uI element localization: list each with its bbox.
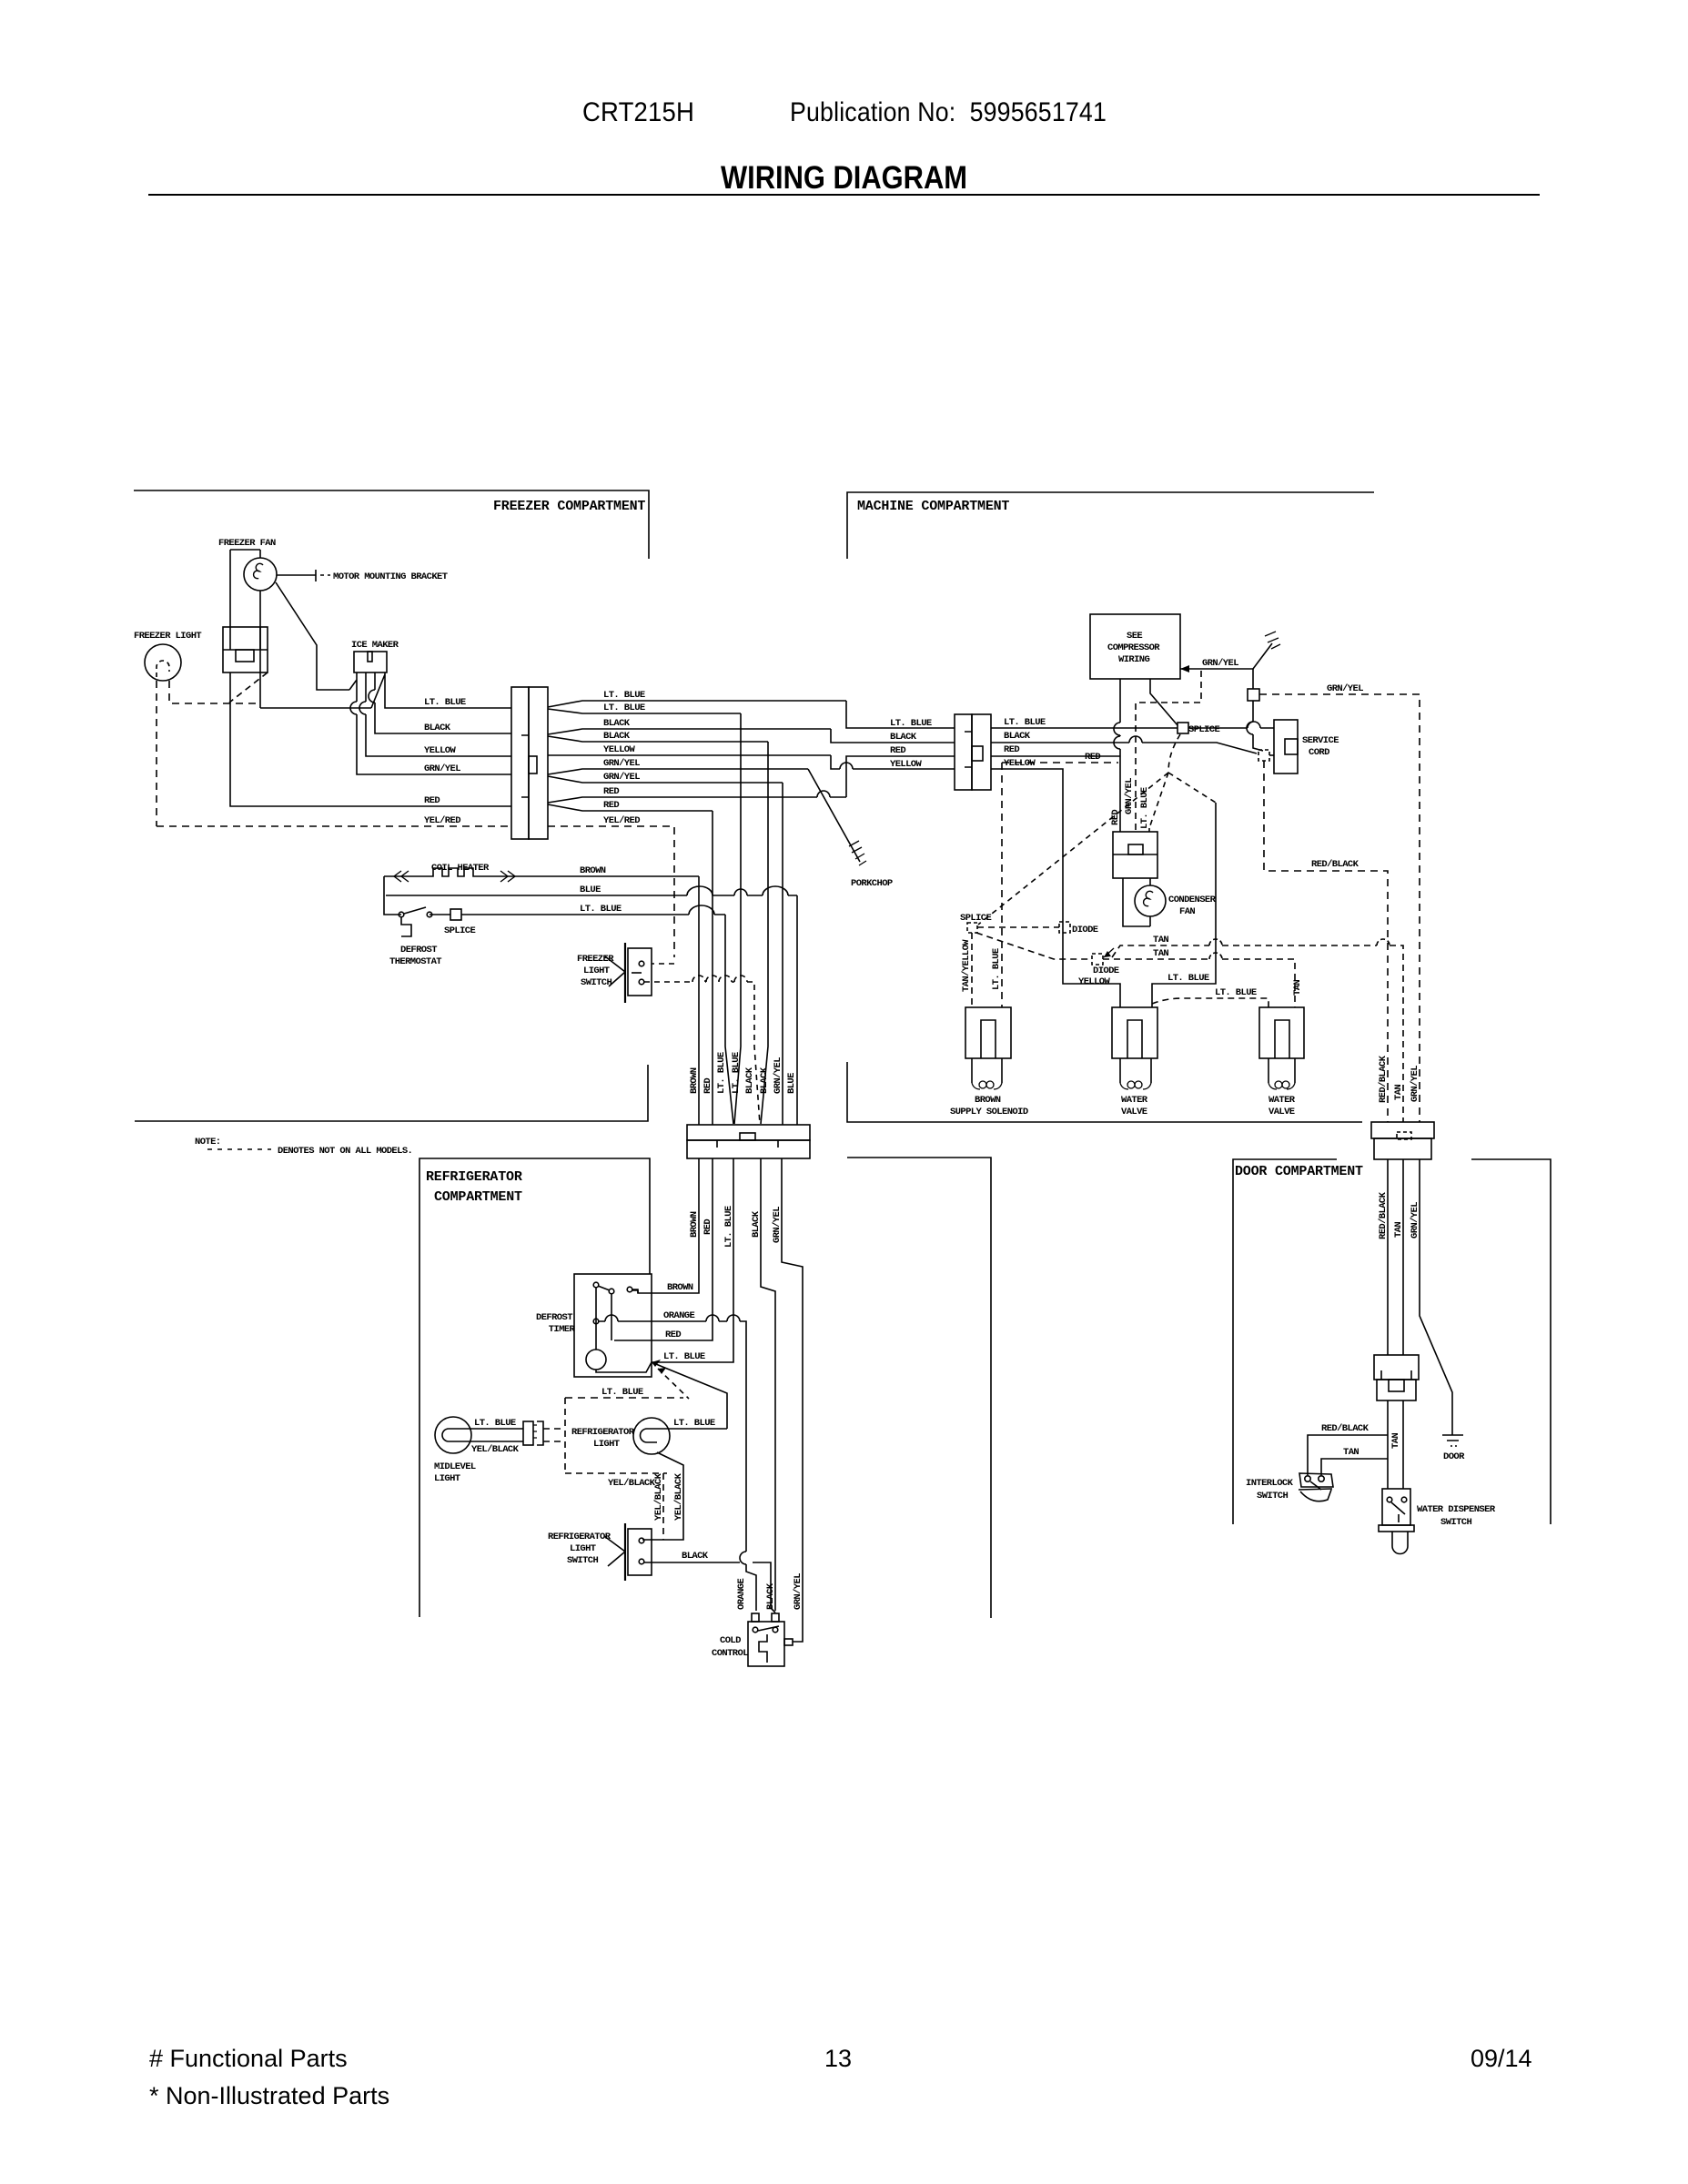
title rule bbox=[148, 194, 1540, 196]
lt blue dashed to valve2 bbox=[1152, 998, 1269, 1007]
wire black2 vertical to connector bbox=[761, 742, 768, 1124]
cold control contacts bbox=[753, 1627, 758, 1633]
wire lt blue1 to machine bbox=[846, 701, 955, 728]
svg-text:WATER DISPENSER: WATER DISPENSER bbox=[1417, 1504, 1496, 1515]
cold control right stub bbox=[784, 1639, 793, 1645]
dashed link midlevel to circuit bbox=[543, 1398, 667, 1473]
lt blue solid vertical to valve bbox=[1152, 803, 1216, 1007]
svg-text:LT. BLUE: LT. BLUE bbox=[601, 1387, 643, 1398]
tan wire to interlock bbox=[1321, 1459, 1388, 1475]
svg-text:RED: RED bbox=[665, 1330, 681, 1340]
svg-text:COLD: COLD bbox=[720, 1635, 741, 1646]
orange wire from timer bbox=[599, 1321, 756, 1611]
svg-text:TAN: TAN bbox=[1153, 948, 1168, 959]
svg-text:BLACK: BLACK bbox=[765, 1582, 776, 1610]
svg-text:GRN/YEL: GRN/YEL bbox=[773, 1057, 783, 1094]
defrost thermostat step bbox=[401, 917, 411, 936]
wire fanout grn/yel pair bbox=[548, 769, 808, 783]
wire lt blue vertical to connector bbox=[725, 915, 733, 1124]
brown supply solenoid legs bbox=[972, 1058, 1002, 1083]
svg-text:LT. BLUE: LT. BLUE bbox=[424, 697, 466, 708]
freezer light switch contacts bbox=[639, 961, 644, 966]
svg-text:DEFROST: DEFROST bbox=[400, 945, 437, 955]
svg-text:LT. BLUE: LT. BLUE bbox=[1167, 973, 1209, 984]
wire freezer fan right lead bbox=[259, 550, 261, 708]
midlevel light circle bbox=[435, 1417, 471, 1453]
svg-text:ICE MAKER: ICE MAKER bbox=[351, 640, 399, 651]
machine connector block bbox=[955, 714, 972, 790]
svg-text:FREEZER: FREEZER bbox=[577, 954, 614, 965]
wire square to service cord bbox=[1269, 754, 1274, 756]
door wires red/black tan grn/yel bbox=[1388, 1159, 1452, 1435]
svg-text:SWITCH: SWITCH bbox=[1440, 1517, 1472, 1528]
freezer fan bracket box bbox=[223, 627, 268, 672]
water valve 2 legs bbox=[1269, 1058, 1295, 1083]
wire fan to ice maker diagonal bbox=[276, 582, 349, 690]
svg-text:BLACK: BLACK bbox=[744, 1067, 755, 1094]
svg-text:BROWN: BROWN bbox=[667, 1282, 693, 1293]
svg-text:SPLICE: SPLICE bbox=[960, 913, 992, 924]
svg-text:# Functional Parts: # Functional Parts bbox=[149, 2045, 348, 2072]
svg-text:BLACK: BLACK bbox=[424, 723, 451, 733]
wire black from switch bbox=[644, 1562, 775, 1613]
red dashed branch bbox=[1002, 762, 1118, 763]
svg-text:YEL/BLACK: YEL/BLACK bbox=[608, 1478, 656, 1489]
door connector block bbox=[1371, 1122, 1434, 1138]
refrigerator light switch flag bbox=[604, 1536, 625, 1566]
refrigerator light switch box bbox=[628, 1529, 652, 1575]
refrigerator light circle bbox=[633, 1418, 670, 1454]
svg-text:SWITCH: SWITCH bbox=[581, 977, 612, 988]
svg-text:GRN/YEL: GRN/YEL bbox=[1327, 683, 1363, 694]
svg-text:DIODE: DIODE bbox=[1093, 966, 1119, 976]
coil heater element bbox=[384, 868, 699, 876]
tan lower dashed to valve2 bbox=[1103, 959, 1295, 1007]
svg-text:GRN/YEL: GRN/YEL bbox=[772, 1207, 783, 1243]
freezer light switch flag bbox=[605, 956, 625, 986]
wire lt blue freezer left bbox=[260, 707, 371, 709]
svg-text:BROWN: BROWN bbox=[580, 865, 606, 876]
water valve 2 coil bbox=[1269, 1083, 1295, 1089]
svg-text:WIRING DIAGRAM: WIRING DIAGRAM bbox=[721, 160, 967, 196]
wire midlevel yel/black bbox=[470, 1441, 523, 1442]
svg-text:YEL/BLACK: YEL/BLACK bbox=[471, 1444, 520, 1455]
svg-text:BLACK: BLACK bbox=[890, 732, 917, 743]
svg-text:13: 13 bbox=[824, 2045, 852, 2072]
wire black machine right bbox=[991, 743, 1257, 753]
svg-text:WIRING: WIRING bbox=[1118, 654, 1150, 665]
wire yel/red dashed freezer bbox=[157, 825, 511, 827]
svg-text:VALVE: VALVE bbox=[1121, 1107, 1147, 1117]
svg-text:LT. BLUE: LT. BLUE bbox=[603, 690, 645, 701]
ice maker pin 4 bbox=[371, 672, 511, 708]
diode1 square bbox=[1059, 922, 1070, 933]
wire compressor right vertical to splice bbox=[1150, 679, 1178, 725]
svg-text:RED: RED bbox=[603, 786, 619, 797]
svg-text:RED/BLACK: RED/BLACK bbox=[1321, 1423, 1370, 1434]
wire grn/yel2 vertical to connector bbox=[782, 783, 783, 1125]
tan dashed diagonal from splice bbox=[976, 933, 1092, 959]
brown supply solenoid coil bbox=[972, 1083, 980, 1089]
wire relay lt blue stub bbox=[1148, 828, 1150, 832]
door compartment border right bbox=[1471, 1159, 1551, 1524]
svg-text:BLACK: BLACK bbox=[1004, 731, 1031, 742]
svg-text:RED: RED bbox=[424, 795, 440, 806]
wire midlevel lt blue bbox=[471, 1428, 523, 1430]
svg-text:LT. BLUE: LT. BLUE bbox=[603, 703, 645, 713]
svg-text:COMPRESSOR: COMPRESSOR bbox=[1107, 642, 1160, 653]
svg-text:FREEZER FAN: FREEZER FAN bbox=[218, 538, 276, 549]
svg-text:BROWN: BROWN bbox=[975, 1095, 1001, 1106]
svg-text:VALVE: VALVE bbox=[1269, 1107, 1295, 1117]
svg-text:BLACK: BLACK bbox=[759, 1067, 770, 1094]
svg-text:MIDLEVEL: MIDLEVEL bbox=[434, 1461, 476, 1472]
wire yellow to machine bbox=[831, 755, 955, 769]
svg-text:TAN: TAN bbox=[1393, 1222, 1404, 1238]
ice maker pin 2 bbox=[366, 672, 511, 756]
freezer light filament dashed bbox=[157, 661, 169, 677]
svg-text:YELLOW: YELLOW bbox=[1078, 976, 1111, 987]
svg-text:GRN/YEL: GRN/YEL bbox=[1410, 1202, 1420, 1239]
freezer light switch plate bbox=[624, 943, 626, 1003]
defrost timer red contact vertical bbox=[611, 1294, 612, 1340]
svg-text:BLUE: BLUE bbox=[580, 885, 601, 895]
freezer compartment border bottom bbox=[135, 1065, 648, 1121]
below-connector wire lt blue bbox=[652, 1158, 733, 1362]
defrost timer motor circle bbox=[586, 1350, 606, 1370]
freezer light bulb circle bbox=[145, 644, 181, 681]
svg-text:YEL/BLACK: YEL/BLACK bbox=[673, 1472, 684, 1521]
svg-text:MOTOR MOUNTING BRACKET: MOTOR MOUNTING BRACKET bbox=[333, 571, 448, 582]
water dispenser switch box bbox=[1382, 1489, 1410, 1525]
svg-text:LT. BLUE: LT. BLUE bbox=[673, 1418, 715, 1429]
svg-text:YEL/BLACK: YEL/BLACK bbox=[653, 1472, 664, 1521]
svg-text:LIGHT: LIGHT bbox=[570, 1543, 596, 1554]
svg-text:LT. BLUE: LT. BLUE bbox=[890, 718, 932, 729]
defrost timer box bbox=[574, 1274, 652, 1377]
svg-text:LT. BLUE: LT. BLUE bbox=[723, 1206, 734, 1248]
svg-text:SEE: SEE bbox=[1127, 631, 1142, 642]
svg-text:RED/BLACK: RED/BLACK bbox=[1378, 1055, 1389, 1103]
wire lt blue heater row bbox=[430, 914, 725, 915]
in-door connector block bbox=[1374, 1355, 1419, 1380]
svg-text:SPLICE: SPLICE bbox=[1188, 724, 1220, 735]
red/black wire to interlock bbox=[1308, 1400, 1388, 1489]
diode2 square bbox=[1092, 954, 1103, 965]
svg-text:SERVICE: SERVICE bbox=[1302, 735, 1339, 746]
wire heater left vertical bbox=[384, 876, 401, 915]
wire fanout black pair bbox=[548, 729, 831, 742]
svg-text:COMPARTMENT: COMPARTMENT bbox=[434, 1189, 522, 1205]
defrost thermostat contacts bbox=[399, 912, 404, 917]
porkchop ground diagonal bbox=[808, 769, 860, 862]
svg-text:DOOR: DOOR bbox=[1443, 1451, 1465, 1462]
svg-text:REFRIGERATOR: REFRIGERATOR bbox=[548, 1532, 612, 1542]
wire refrigerator light lt blue bbox=[670, 1428, 727, 1430]
svg-text:PORKCHOP: PORKCHOP bbox=[851, 878, 893, 889]
svg-text:GRN/YEL: GRN/YEL bbox=[603, 758, 640, 769]
grn/yel dashed to door bbox=[1259, 694, 1420, 1122]
svg-text:THERMOSTAT: THERMOSTAT bbox=[389, 956, 441, 967]
wire dashed diagonal bracket to fan node bbox=[229, 672, 268, 703]
svg-text:SUPPLY SOLENOID: SUPPLY SOLENOID bbox=[950, 1107, 1028, 1117]
svg-text:Publication No: 5995651741: Publication No: 5995651741 bbox=[790, 97, 1107, 127]
interlock switch symbol bbox=[1305, 1476, 1310, 1481]
svg-text:BLACK: BLACK bbox=[751, 1210, 762, 1238]
svg-text:09/14: 09/14 bbox=[1471, 2045, 1532, 2072]
water dispenser switch flange bbox=[1379, 1525, 1414, 1532]
freezer compartment border top bbox=[134, 490, 649, 559]
refrigerator compartment border right bbox=[847, 1158, 991, 1618]
svg-text:BLACK: BLACK bbox=[603, 718, 631, 729]
refrigerator compartment border top-left bbox=[419, 1158, 650, 1617]
ice maker box bbox=[354, 652, 387, 672]
red/black dashed from square bbox=[1264, 761, 1388, 1122]
svg-text:RED: RED bbox=[702, 1078, 713, 1094]
wire blue heater bbox=[386, 895, 797, 896]
tan upper dashed to door bbox=[1112, 945, 1403, 1122]
svg-text:LT. BLUE: LT. BLUE bbox=[1004, 717, 1046, 728]
svg-text:GRN/YEL: GRN/YEL bbox=[1410, 1066, 1420, 1102]
grn/yel dashed relay path bbox=[1136, 671, 1201, 832]
below-connector wire black bbox=[761, 1158, 775, 1611]
svg-text:LT. BLUE: LT. BLUE bbox=[1215, 987, 1257, 998]
svg-text:YELLOW: YELLOW bbox=[1004, 758, 1036, 769]
wire brown vertical to connector bbox=[698, 876, 700, 1125]
svg-text:LIGHT: LIGHT bbox=[434, 1473, 460, 1484]
svg-text:BLACK: BLACK bbox=[603, 731, 631, 742]
refrigerator connector block bbox=[687, 1125, 810, 1140]
svg-text:GRN/YEL: GRN/YEL bbox=[1124, 778, 1135, 814]
svg-text:INTERLOCK: INTERLOCK bbox=[1246, 1478, 1294, 1489]
refrigerator light switch plate bbox=[624, 1523, 626, 1581]
ice maker splice square dashed bbox=[967, 923, 977, 933]
svg-text:RED: RED bbox=[1085, 752, 1100, 763]
svg-text:BLACK: BLACK bbox=[682, 1551, 709, 1562]
grn/yel splice square bbox=[1248, 689, 1259, 701]
svg-text:SWITCH: SWITCH bbox=[1257, 1491, 1289, 1501]
svg-text:* Non-Illustrated Parts: * Non-Illustrated Parts bbox=[149, 2082, 389, 2109]
wire switch lower contact dashed bbox=[644, 982, 760, 1124]
defrost timer motor bottom wire bbox=[596, 1362, 652, 1372]
diode1 dashed to splice bbox=[977, 926, 1059, 928]
below-connector wire red bbox=[614, 1158, 713, 1340]
wire yellow machine right bbox=[991, 769, 1120, 1007]
wire grn/yel splice drop bbox=[1253, 669, 1263, 751]
dashed yel/black vertical bbox=[662, 1473, 664, 1540]
svg-text:RED: RED bbox=[603, 800, 619, 811]
grn/yel ground hatch bbox=[1265, 632, 1280, 649]
cold control bellows bbox=[759, 1634, 767, 1663]
lt blue dashed node and diagonals bbox=[1149, 734, 1216, 828]
wire compressor red vertical bbox=[1119, 679, 1121, 832]
svg-text:TAN: TAN bbox=[1343, 1447, 1359, 1458]
grn/yel wire top bbox=[1180, 643, 1272, 669]
svg-text:TAN: TAN bbox=[1153, 935, 1168, 945]
svg-text:NOTE:: NOTE: bbox=[195, 1137, 221, 1148]
water valve 1 coil bbox=[1120, 1083, 1151, 1089]
svg-text:REFRIGERATOR: REFRIGERATOR bbox=[571, 1427, 635, 1438]
svg-text:TIMER: TIMER bbox=[543, 1324, 576, 1335]
svg-text:RED: RED bbox=[890, 745, 905, 756]
defrost timer brown contact wire bbox=[632, 1289, 638, 1293]
see compressor wiring box bbox=[1090, 614, 1180, 679]
lt blue dashed horizontal bbox=[565, 1397, 683, 1399]
service cord dashed square bbox=[1258, 750, 1269, 761]
freezer light switch box bbox=[628, 948, 652, 996]
cold control terminals bbox=[752, 1613, 759, 1622]
water valve 1 body bbox=[1112, 1007, 1157, 1058]
svg-text:CONTROL: CONTROL bbox=[712, 1648, 748, 1659]
brown supply solenoid body bbox=[965, 1007, 1011, 1058]
tan wire to dispenser bbox=[1402, 1400, 1404, 1489]
water valve 1 legs bbox=[1120, 1058, 1151, 1083]
wire lt blue2 vertical to connector bbox=[734, 713, 741, 1124]
wire yellow through bbox=[548, 754, 831, 756]
splice square heater bbox=[450, 909, 461, 920]
wire freezer light dashed to fan node bbox=[169, 681, 258, 703]
wire fanout red pair bbox=[548, 797, 846, 811]
machine compartment border bottom bbox=[847, 1062, 1362, 1122]
wire blue vertical to connector bbox=[796, 895, 798, 1125]
svg-text:TAN: TAN bbox=[1393, 1085, 1404, 1100]
svg-text:GRN/YEL: GRN/YEL bbox=[793, 1573, 804, 1610]
midlevel connector bbox=[523, 1421, 533, 1445]
svg-text:BROWN: BROWN bbox=[689, 1211, 700, 1238]
motor mounting bracket symbol bbox=[277, 570, 316, 581]
diode2 arrow bbox=[1104, 948, 1114, 957]
condenser fan legs bbox=[1123, 878, 1150, 926]
wire yel/red dashed right bbox=[548, 826, 674, 957]
below-connector wire brown bbox=[632, 1158, 699, 1293]
wire refr light yel/black solid bbox=[642, 1452, 683, 1540]
svg-text:FREEZER LIGHT: FREEZER LIGHT bbox=[134, 631, 201, 642]
water dispenser switch plunger bbox=[1392, 1532, 1408, 1554]
refrigerator light filament bbox=[641, 1429, 671, 1442]
svg-text:RED/BLACK: RED/BLACK bbox=[1311, 859, 1359, 870]
cold control box bbox=[748, 1622, 784, 1666]
svg-text:LIGHT: LIGHT bbox=[593, 1439, 620, 1450]
wire red1 to machine bbox=[846, 756, 955, 797]
svg-text:CONDENSER: CONDENSER bbox=[1168, 895, 1217, 905]
wire freezer light dashed drop to yel/red bbox=[156, 681, 157, 826]
svg-text:LT. BLUE: LT. BLUE bbox=[474, 1418, 516, 1429]
door compartment border left bbox=[1233, 1159, 1337, 1524]
wire fanout lt blue pair bbox=[548, 701, 846, 713]
svg-text:BROWN: BROWN bbox=[689, 1067, 700, 1094]
svg-text:REFRIGERATOR: REFRIGERATOR bbox=[426, 1169, 522, 1185]
lt blue dashed vertical to solenoid bbox=[1001, 763, 1003, 1007]
wire red machine right bbox=[991, 755, 1120, 757]
defrost timer contacts bbox=[593, 1282, 599, 1288]
lt blue diagonal to refrigerator light bbox=[652, 1362, 727, 1429]
svg-text:YELLOW: YELLOW bbox=[890, 759, 923, 770]
below-connector wire grn/yel bbox=[782, 1158, 803, 1642]
svg-text:ORANGE: ORANGE bbox=[736, 1578, 747, 1610]
svg-text:DOOR COMPARTMENT: DOOR COMPARTMENT bbox=[1235, 1164, 1363, 1179]
svg-text:BLUE: BLUE bbox=[786, 1073, 797, 1094]
svg-text:RED/BLACK: RED/BLACK bbox=[1378, 1191, 1389, 1239]
lt blue dashed arrow diagonal bbox=[658, 1369, 689, 1399]
svg-text:LT. BLUE: LT. BLUE bbox=[991, 948, 1002, 990]
svg-text:RED: RED bbox=[1004, 744, 1019, 755]
condenser fan coil bbox=[1144, 891, 1153, 905]
svg-text:FREEZER COMPARTMENT: FREEZER COMPARTMENT bbox=[493, 499, 645, 514]
freezer connector block bbox=[511, 687, 529, 839]
wire red freezer left bbox=[230, 672, 511, 806]
wire black1 to machine bbox=[831, 729, 955, 743]
svg-text:FAN: FAN bbox=[1179, 906, 1195, 917]
wire red vertical to connector bbox=[712, 811, 713, 1125]
svg-text:CORD: CORD bbox=[1309, 747, 1329, 758]
svg-text:WATER: WATER bbox=[1269, 1095, 1296, 1106]
svg-text:LT. BLUE: LT. BLUE bbox=[731, 1052, 742, 1094]
svg-text:YEL/RED: YEL/RED bbox=[424, 815, 460, 826]
lt blue dashed long diagonal to splice bbox=[978, 773, 1168, 925]
svg-text:SWITCH: SWITCH bbox=[567, 1555, 599, 1566]
machine compartment border top bbox=[847, 492, 1374, 559]
freezer fan motor circle bbox=[244, 558, 277, 591]
midlevel light filament bbox=[442, 1429, 471, 1441]
svg-text:ORANGE: ORANGE bbox=[663, 1310, 695, 1321]
svg-text:LT. BLUE: LT. BLUE bbox=[580, 904, 622, 915]
door ground bbox=[1442, 1435, 1463, 1446]
svg-text:DEFROST: DEFROST bbox=[536, 1312, 572, 1323]
svg-text:DENOTES NOT ON ALL MODELS.: DENOTES NOT ON ALL MODELS. bbox=[278, 1146, 412, 1157]
defrost timer left vertical bbox=[595, 1288, 597, 1350]
tan/yellow dashed vertical bbox=[971, 933, 973, 1007]
svg-text:MACHINE COMPARTMENT: MACHINE COMPARTMENT bbox=[857, 499, 1009, 514]
svg-text:TAN/YELLOW: TAN/YELLOW bbox=[961, 939, 972, 992]
ice maker pin 1 bbox=[349, 672, 511, 774]
freezer fan motor coil bbox=[254, 563, 263, 578]
svg-text:SPLICE: SPLICE bbox=[444, 925, 476, 936]
compressor relay box bbox=[1113, 832, 1157, 878]
refrigerator light switch contacts bbox=[639, 1538, 644, 1543]
svg-text:GRN/YEL: GRN/YEL bbox=[1202, 658, 1238, 669]
svg-text:YELLOW: YELLOW bbox=[603, 744, 636, 755]
wire lt blue machine right bbox=[991, 727, 1274, 729]
lt blue junction arrow bbox=[652, 1360, 661, 1367]
svg-text:TAN: TAN bbox=[1292, 980, 1303, 996]
water valve 2 body bbox=[1259, 1007, 1304, 1058]
svg-text:LT. BLUE: LT. BLUE bbox=[716, 1052, 727, 1094]
note dashed sample bbox=[207, 1148, 271, 1150]
svg-text:LT. BLUE: LT. BLUE bbox=[663, 1351, 705, 1362]
svg-text:RED: RED bbox=[702, 1219, 713, 1235]
svg-text:TAN: TAN bbox=[1390, 1433, 1401, 1449]
svg-text:LT. BLUE: LT. BLUE bbox=[1139, 787, 1150, 829]
svg-text:CRT215H: CRT215H bbox=[582, 97, 694, 127]
svg-text:DIODE: DIODE bbox=[1072, 925, 1098, 935]
svg-text:YELLOW: YELLOW bbox=[424, 745, 457, 756]
service cord box bbox=[1274, 720, 1298, 773]
svg-text:GRN/YEL: GRN/YEL bbox=[603, 772, 640, 783]
condenser fan circle bbox=[1135, 885, 1166, 916]
svg-text:WATER: WATER bbox=[1121, 1095, 1148, 1106]
svg-text:LIGHT: LIGHT bbox=[583, 966, 610, 976]
machine splice square bbox=[1178, 723, 1188, 733]
wire freezer fan top bbox=[230, 549, 260, 551]
svg-text:GRN/YEL: GRN/YEL bbox=[424, 763, 460, 774]
svg-text:YEL/RED: YEL/RED bbox=[603, 815, 640, 826]
wire freezer fan left lead bbox=[229, 550, 231, 627]
ice maker pin 3 bbox=[375, 672, 511, 733]
